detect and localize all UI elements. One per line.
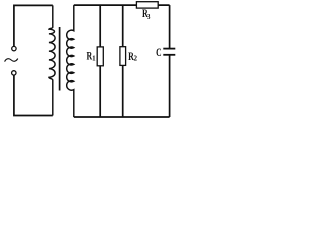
- svg-text:1: 1: [92, 54, 96, 62]
- svg-text:3: 3: [147, 13, 151, 21]
- svg-text:2: 2: [134, 55, 138, 63]
- svg-text:C: C: [156, 47, 162, 59]
